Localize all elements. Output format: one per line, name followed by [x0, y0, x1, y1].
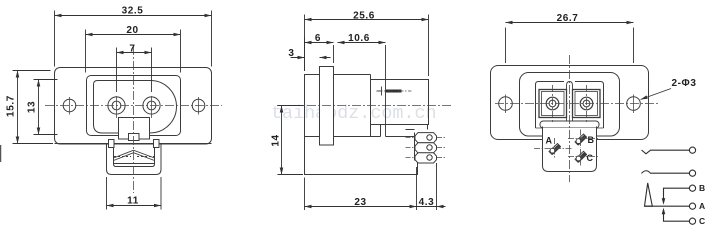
rear terminal screw right outer	[580, 97, 593, 110]
side view solder lug 1	[415, 133, 437, 143]
dim 26.7	[506, 23, 634, 64]
rear terminal right vertical centerline	[586, 85, 588, 122]
terminal pin right outer	[143, 97, 160, 114]
rear terminal screw left outer	[546, 97, 559, 110]
schematic contact row 1 wire	[642, 150, 690, 154]
schematic wire A	[645, 205, 690, 207]
side view pin hatched bar	[386, 90, 402, 93]
lug centerline ticks	[406, 137, 447, 139]
svg-text:A: A	[546, 136, 553, 146]
crosshair hole left	[69, 97, 71, 115]
dimensions front view	[6, 6, 212, 210]
schematic wire B branch	[664, 188, 690, 199]
dim 20	[86, 30, 181, 73]
side view lug 3 hole	[427, 155, 432, 160]
svg-text:3: 3	[288, 48, 294, 59]
latch inner bottom line	[114, 163, 155, 165]
rear terminal block left inner	[542, 92, 565, 116]
side view pin tick	[377, 87, 382, 96]
rear view flange outline	[491, 66, 649, 140]
lug centerline ticks	[406, 147, 447, 149]
rear terminal screw left inner	[549, 100, 556, 107]
svg-text:13: 13	[27, 101, 38, 113]
terminal right center tick	[151, 96, 153, 118]
svg-text:7: 7	[129, 44, 135, 55]
svg-text:32.5: 32.5	[122, 6, 144, 17]
svg-text:20: 20	[126, 25, 138, 36]
latch clip right	[154, 140, 160, 148]
schematic arrow C	[662, 208, 666, 215]
rear hole right tick	[633, 95, 635, 114]
terminal left center tick	[116, 96, 118, 118]
lug B crosshair	[568, 130, 598, 149]
vertical centerline main	[133, 46, 135, 193]
rear terminal block left	[539, 90, 567, 118]
schematic terminal A	[689, 203, 695, 209]
terminal pin right inner	[147, 101, 156, 110]
rear recess rounded rect	[520, 73, 620, 137]
fuse drawer window	[119, 118, 150, 140]
svg-text:B: B	[588, 135, 595, 145]
mounting hole left	[63, 99, 76, 112]
dim 23	[305, 167, 417, 210]
horizontal centerline	[45, 105, 222, 107]
side view body-underside line	[305, 136, 320, 138]
svg-text:A: A	[699, 201, 705, 211]
svg-text:26.7: 26.7	[557, 13, 579, 24]
side view lug 2 hole	[427, 145, 432, 150]
lug centerline ticks	[406, 157, 447, 159]
svg-text:2-Φ3: 2-Φ3	[671, 78, 696, 89]
dim 11	[107, 177, 162, 210]
schematic wire C branch	[664, 213, 690, 221]
dim 25.6	[305, 15, 429, 77]
label 2-phi3 with leader	[641, 89, 672, 100]
svg-text:23: 23	[354, 197, 366, 208]
rear mounting hole right	[627, 97, 641, 111]
dim 32.5	[55, 11, 212, 67]
schematic terminal B	[689, 185, 695, 191]
side view lug 1 hole	[427, 135, 432, 140]
front view inner face shape	[94, 81, 177, 134]
rear horizontal centerline	[495, 103, 660, 105]
svg-text:6: 6	[315, 33, 321, 44]
rear mounting hole left	[499, 97, 513, 111]
dimensions rear view	[506, 13, 697, 101]
flange bottom edge line	[55, 143, 212, 145]
side view flange plate	[320, 67, 334, 146]
side view step lines	[334, 125, 418, 137]
dim 3	[291, 57, 331, 59]
svg-text:11: 11	[127, 196, 139, 207]
latch inner U	[114, 148, 155, 167]
solder lug C	[575, 151, 587, 162]
side view centerlines	[277, 91, 452, 158]
front view flange outline	[55, 68, 212, 145]
terminal pin left outer	[108, 97, 125, 114]
rear terminal screw right inner	[583, 100, 590, 107]
schematic contact row 2 wire	[642, 171, 690, 174]
schematic labels	[699, 183, 705, 226]
latch clip left	[109, 140, 115, 148]
schematic contact row 2 terminal	[689, 170, 695, 176]
centerlines front view	[45, 46, 222, 193]
rear view labels	[546, 135, 595, 163]
svg-text:14: 14	[271, 134, 282, 146]
side view lug block edge	[406, 125, 428, 161]
dim 10.6	[338, 43, 386, 137]
rear vertical centerline	[569, 55, 571, 182]
front view recess rect	[87, 76, 181, 136]
side view body outline	[305, 75, 418, 175]
terminal pin left inner	[112, 101, 121, 110]
rear hole left tick	[505, 95, 507, 114]
rear divider slot	[567, 82, 573, 122]
svg-text:15.7: 15.7	[6, 95, 17, 117]
dim 7	[117, 48, 152, 93]
latch hatch dashes	[114, 156, 154, 158]
rear view centerlines	[495, 55, 660, 182]
rear inner liner	[536, 82, 604, 129]
svg-text:C: C	[587, 153, 594, 163]
rear terminal left vertical centerline	[552, 85, 554, 122]
schematic fuse triangle	[645, 183, 653, 206]
svg-text:10.6: 10.6	[348, 33, 370, 44]
lug C crosshair	[568, 149, 598, 166]
rear drawer outline	[543, 127, 597, 172]
svg-text:B: B	[699, 183, 705, 193]
latch housing outer	[107, 145, 162, 175]
rear drawer	[543, 128, 597, 172]
rear terminal block right inner	[575, 92, 598, 116]
pin centerline	[377, 90, 412, 92]
dim 13	[34, 80, 58, 135]
side view rear block	[371, 80, 429, 125]
rear liner bottom line	[536, 127, 604, 129]
solder lug B	[575, 134, 587, 145]
dimensions side view	[271, 11, 446, 211]
mounting hole right	[192, 99, 205, 112]
horizontal centerline side view	[277, 105, 452, 107]
schematic terminal C	[689, 218, 695, 224]
latch chevron	[114, 150, 155, 160]
fuse drawer tab	[129, 134, 140, 141]
solder lug A	[549, 144, 561, 155]
dim 14	[278, 106, 304, 175]
dim 4.3	[417, 167, 446, 211]
lug A crosshair	[534, 138, 572, 159]
dim 15.7	[13, 71, 54, 144]
schematic arrow B	[662, 198, 666, 205]
crosshair hole right	[198, 97, 200, 115]
side view solder lug 3	[415, 153, 437, 163]
watermark	[271, 103, 437, 124]
left margin mark	[0, 145, 2, 162]
schematic contact row 1 terminal	[689, 147, 695, 153]
side view solder lug 2	[415, 143, 437, 153]
dim 6	[305, 37, 334, 71]
svg-text:C: C	[699, 216, 705, 226]
rear terminal block right	[573, 90, 601, 118]
svg-text:4.3: 4.3	[419, 197, 435, 208]
rear T bar	[540, 121, 599, 128]
svg-text:25.6: 25.6	[353, 11, 375, 22]
side view lug block bottom lines	[418, 163, 437, 175]
